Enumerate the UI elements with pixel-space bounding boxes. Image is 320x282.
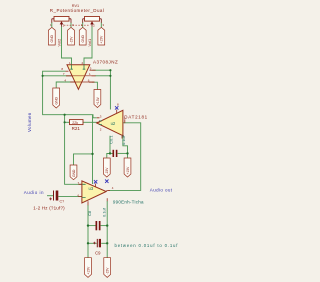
- svg-text:GND: GND: [81, 35, 85, 43]
- svg-text:A3708JNZ: A3708JNZ: [93, 60, 118, 65]
- svg-text:Audio out: Audio out: [150, 187, 173, 192]
- svg-text:-15V: -15V: [69, 36, 73, 44]
- svg-text:GND: GND: [50, 35, 54, 43]
- svg-text:between 0.01uf to 0.1uf: between 0.01uf to 0.1uf: [115, 243, 179, 248]
- svg-text:0.1uf: 0.1uf: [102, 207, 107, 217]
- svg-text:1-2 Hz (?1uf?): 1-2 Hz (?1uf?): [33, 206, 65, 211]
- svg-text:+15V: +15V: [96, 96, 100, 105]
- svg-text:u2: u2: [111, 121, 116, 126]
- svg-text:+15V: +15V: [126, 166, 130, 175]
- svg-text:Vol1: Vol1: [87, 38, 92, 47]
- svg-text:-15V: -15V: [105, 167, 109, 175]
- svg-text:C9: C9: [95, 251, 101, 256]
- svg-text:C?: C?: [60, 200, 65, 204]
- svg-text:-15V: -15V: [106, 267, 110, 275]
- svg-text:0.1uF: 0.1uF: [121, 134, 126, 145]
- svg-text:C0.1: C0.1: [109, 135, 114, 144]
- svg-text:990Enh-Ticha: 990Enh-Ticha: [113, 199, 144, 204]
- svg-text:GND: GND: [72, 169, 76, 177]
- svg-text:R_Potentiometer_Dual: R_Potentiometer_Dual: [50, 8, 105, 13]
- svg-text:u3: u3: [89, 186, 94, 191]
- svg-text:C8: C8: [87, 210, 92, 216]
- svg-text:+15V: +15V: [100, 35, 104, 44]
- svg-text:Audio in: Audio in: [24, 190, 44, 195]
- svg-text:Volumen: Volumen: [27, 112, 32, 132]
- svg-text:GND: GND: [55, 97, 59, 105]
- svg-text:DAT2181: DAT2181: [124, 114, 148, 119]
- svg-text:+15V: +15V: [86, 266, 90, 275]
- svg-text:22k: 22k: [72, 121, 78, 125]
- svg-text:Vol2: Vol2: [57, 38, 62, 47]
- svg-text:R21: R21: [72, 126, 81, 131]
